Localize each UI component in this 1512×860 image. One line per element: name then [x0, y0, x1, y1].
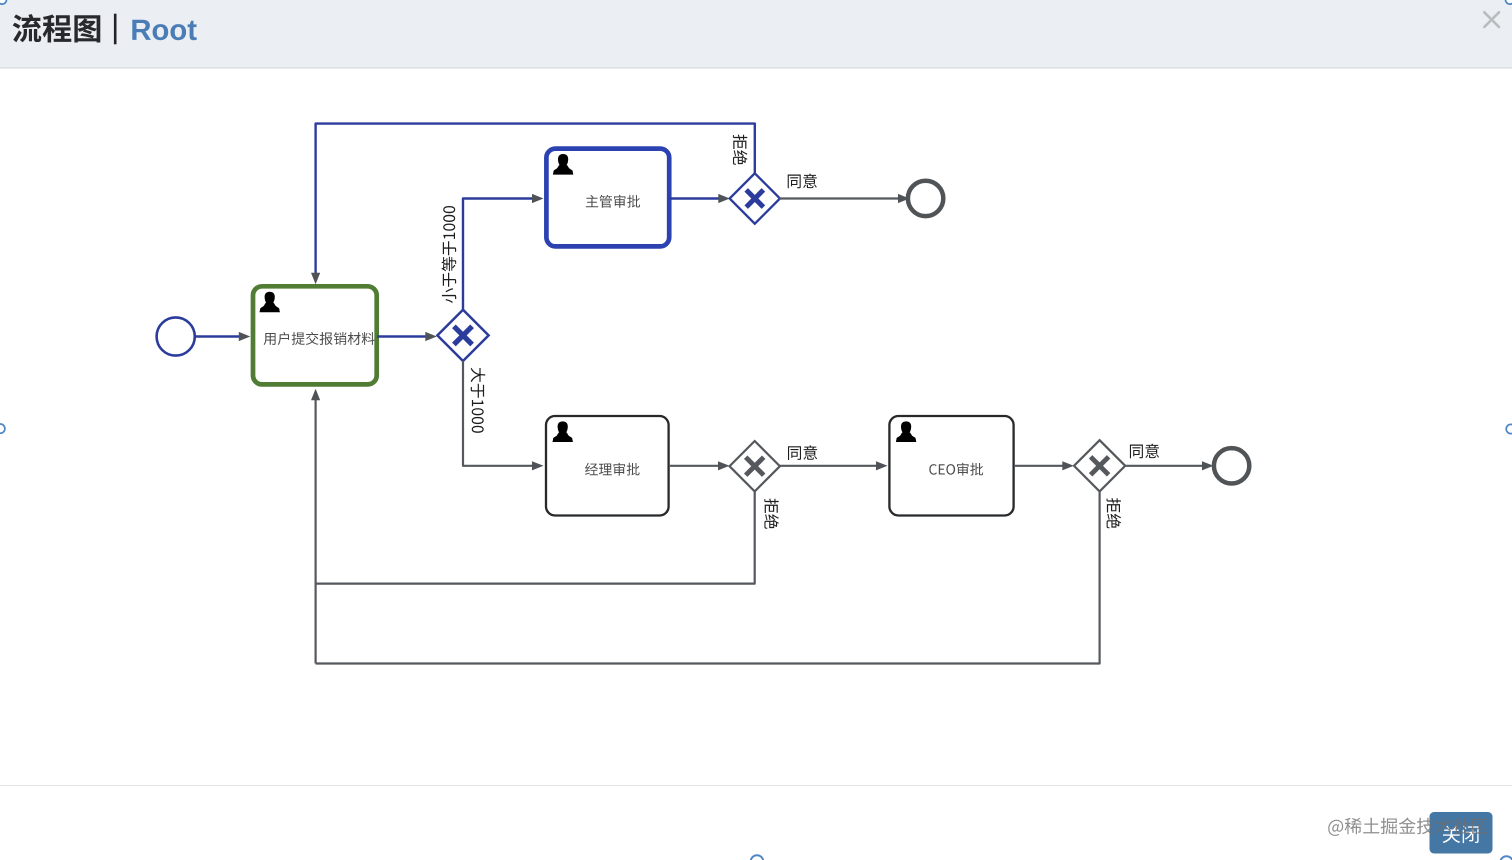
edge label 小于等于1000 (rotated)	[442, 206, 457, 303]
wire 主管审批 to gateway2a	[669, 194, 730, 203]
header separator |	[114, 14, 117, 45]
end event2 circle	[1214, 448, 1249, 483]
edge label 同意 (top)	[788, 174, 817, 189]
wire gateway3 拒绝 loop	[316, 492, 1100, 664]
wire gateway2 拒绝 loop	[316, 491, 755, 583]
gateway1 exclusive (blue)	[437, 310, 488, 361]
edge label 拒绝 (gateway2, rotated)	[764, 499, 779, 529]
task 主管审批 (blue highlighted user task)	[546, 149, 669, 247]
edge label 拒绝 (gateway3, rotated)	[1107, 498, 1122, 528]
anchor handle bottom-center	[751, 855, 764, 860]
close icon x	[1484, 12, 1499, 27]
gateway2 exclusive (grey)	[730, 441, 780, 491]
edge label 同意 (right)	[1130, 444, 1159, 459]
wire gateway2a 拒绝 loop back to 用户提交报销材料 top	[311, 124, 755, 285]
wire gateway3 to end event2 (同意)	[1125, 461, 1213, 470]
anchor handle bottom-right	[1500, 856, 1512, 860]
anchor handle left-middle	[0, 424, 5, 433]
modal header bar	[0, 0, 1512, 69]
close button 关闭	[1430, 812, 1493, 854]
end event1 circle	[908, 181, 943, 216]
gateway2a exclusive (blue)	[730, 173, 780, 223]
header title 流程图	[13, 14, 101, 42]
wire start to 用户提交报销材料	[195, 332, 250, 341]
task CEO审批 (user task)	[889, 416, 1013, 516]
start event circle	[157, 317, 195, 355]
anchor handle top-left	[0, 0, 7, 4]
wire return loop up into 用户提交报销材料 bottom	[311, 389, 320, 664]
watermark @稀土掘金技术社区	[1328, 818, 1487, 836]
footer divider	[0, 785, 1512, 786]
task 用户提交报销材料 (green highlighted user task)	[253, 286, 377, 384]
wire gateway1 to 主管审批 (小于等于1000)	[463, 194, 544, 310]
anchor handle top-right	[1505, 0, 1512, 4]
edge label 拒绝 (gateway2a, rotated)	[733, 135, 748, 165]
wire gateway2 to CEO审批 (同意)	[780, 461, 888, 470]
task 经理审批 (user task)	[546, 416, 669, 516]
wire gateway2a to end event1 (同意)	[779, 194, 909, 203]
header breadcrumb Root	[132, 20, 196, 41]
wire gateway1 to 经理审批 (大于1000)	[463, 361, 544, 470]
edge label 大于1000 (rotated)	[471, 368, 486, 433]
wire 用户提交报销材料 to gateway1	[377, 332, 437, 341]
wire 经理审批 to gateway2	[669, 461, 730, 470]
anchor handle right-middle	[1506, 424, 1512, 433]
edge label 同意 (middle)	[788, 445, 817, 460]
wire CEO审批 to gateway3	[1014, 461, 1074, 470]
gateway3 exclusive (grey)	[1074, 440, 1125, 491]
